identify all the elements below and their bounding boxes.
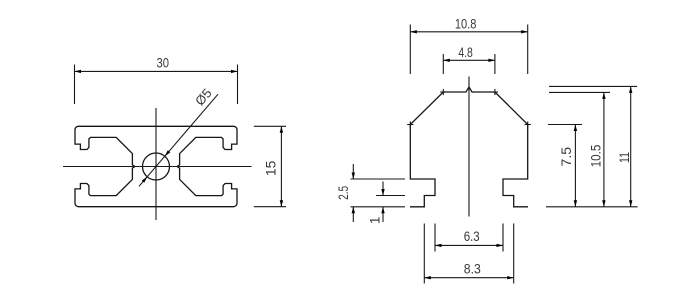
- dimension 8.3: extension lines: [423, 224, 425, 284]
- dimension 1: extension line: [376, 195, 405, 197]
- dimension 4.8: extension lines: [442, 54, 444, 74]
- dimension 10.8: extension lines: [409, 25, 411, 75]
- svg-text:30: 30: [156, 55, 169, 71]
- dimension 2.5: extension lines: [351, 178, 406, 180]
- leader line for Ø5: [139, 94, 218, 186]
- dimension 11: extension line: [549, 85, 637, 87]
- dimension 2.5: dimension line tails: [352, 164, 354, 179]
- tick cross at chamfer vertex (527.7,124.5): [525, 121, 531, 127]
- profile cross-section outline (30x15 extrusion): [75, 126, 237, 206]
- svg-text:7.5: 7.5: [558, 147, 574, 167]
- detail view: slot outline: [410, 87, 528, 207]
- dimension 30: dimension line: [75, 70, 238, 72]
- dimension 30: extension lines: [74, 65, 76, 105]
- horizontal centerline: [63, 166, 252, 168]
- dimension 10.5: extension line: [549, 91, 610, 93]
- dimension 6.3: dimension line: [435, 244, 503, 246]
- svg-text:4.8: 4.8: [458, 44, 473, 60]
- shared bottom extension line for 7.5/10.5/11: [546, 206, 638, 208]
- dimension 7.5: extension line: [548, 124, 582, 126]
- svg-text:11: 11: [616, 152, 632, 163]
- svg-text:15: 15: [262, 160, 278, 176]
- tick cross at chamfer vertex (410.3,124.5): [407, 121, 413, 127]
- tick cross at chamfer vertex (443.3,92): [440, 89, 446, 95]
- dimension 10.5: dimension line: [603, 92, 605, 206]
- dimension 7.5: dimension line: [574, 125, 576, 207]
- dimension 11: dimension line: [630, 86, 632, 206]
- svg-text:10.8: 10.8: [455, 16, 477, 32]
- svg-text:8.3: 8.3: [464, 261, 481, 277]
- svg-text:2.5: 2.5: [335, 186, 351, 200]
- svg-text:Ø5: Ø5: [192, 86, 215, 109]
- vertical centerline: [155, 108, 157, 220]
- svg-text:6.3: 6.3: [464, 228, 480, 244]
- center hole Ø5: [143, 153, 170, 180]
- dimension 10.8: dimension line: [410, 31, 527, 33]
- dimension 15: dimension line: [280, 126, 282, 206]
- detail centerline: [468, 77, 470, 217]
- svg-text:1: 1: [367, 216, 383, 224]
- dimension 1: dimension line tails: [382, 182, 384, 196]
- tick cross at chamfer vertex (494.9,92): [492, 89, 498, 95]
- dimension 8.3: dimension line: [424, 277, 513, 279]
- svg-text:10.5: 10.5: [587, 145, 603, 168]
- dimension 6.3: extension lines: [434, 224, 436, 252]
- dimension 4.8: dimension line: [443, 59, 495, 61]
- dimension 15: extension lines: [254, 125, 286, 127]
